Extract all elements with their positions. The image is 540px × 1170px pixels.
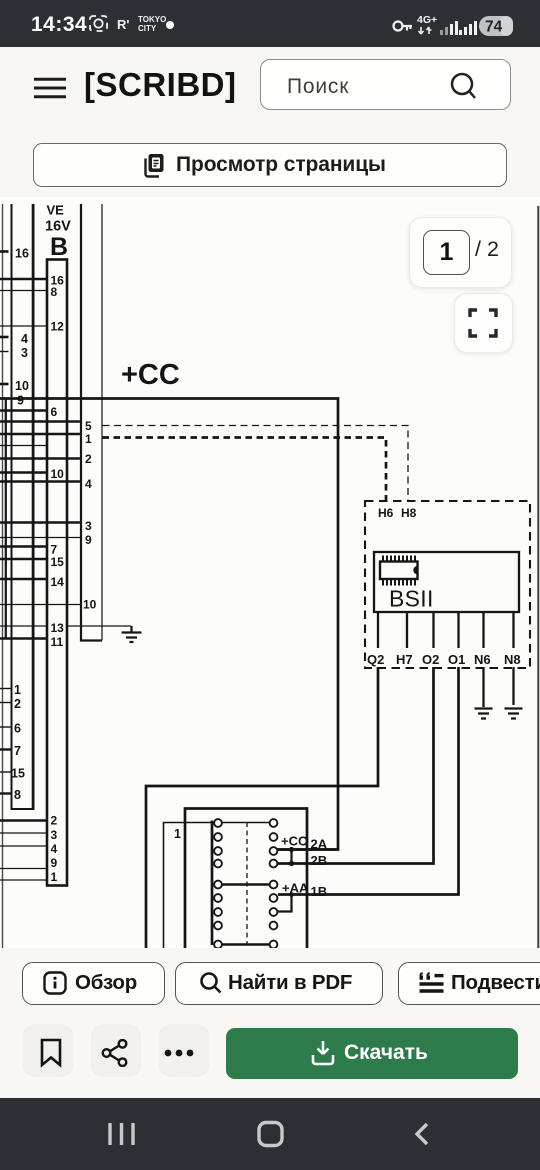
wire row 6 xyxy=(0,409,47,411)
battery xyxy=(479,16,513,36)
svg-text:15: 15 xyxy=(51,555,65,569)
wire row 2 xyxy=(0,457,81,459)
connector E outer box xyxy=(185,809,307,949)
svg-text:9: 9 xyxy=(85,533,92,547)
connector E pin bus xyxy=(211,821,214,946)
wire row b2 xyxy=(0,819,47,821)
footer xyxy=(0,948,540,1098)
svg-text:O1: O1 xyxy=(448,652,465,667)
pin wire Q2 xyxy=(377,612,379,648)
connector E mid dashed xyxy=(246,822,248,944)
wire row 10d xyxy=(0,604,81,606)
wire row 14 xyxy=(0,578,47,580)
svg-text:3: 3 xyxy=(21,346,28,360)
svg-text:1B: 1B xyxy=(311,884,328,899)
svg-text:BSII: BSII xyxy=(389,586,434,612)
wire tick c6 xyxy=(0,726,12,728)
wire page right edge xyxy=(537,206,539,948)
svg-text:+AA: +AA xyxy=(282,881,309,896)
wire N6 route xyxy=(482,667,484,707)
svg-text:1: 1 xyxy=(174,827,181,841)
wire row 1 xyxy=(0,433,81,435)
svg-text:10: 10 xyxy=(15,379,29,393)
wire tick 10 xyxy=(0,383,9,386)
wire tick 16 xyxy=(0,250,9,253)
svg-text:N8: N8 xyxy=(504,652,521,667)
wire row 16 xyxy=(0,278,47,280)
svg-text:7: 7 xyxy=(14,744,21,758)
wire tick c1 xyxy=(0,688,12,690)
junction dots xyxy=(289,847,294,852)
svg-text:H8: H8 xyxy=(401,506,417,520)
wire row b1 xyxy=(0,879,47,881)
pin wire O2 xyxy=(432,612,434,648)
svg-text:13: 13 xyxy=(51,621,65,635)
connector D box xyxy=(81,204,102,641)
svg-text:R': R' xyxy=(117,17,129,32)
svg-text:5: 5 xyxy=(85,419,92,433)
status bar xyxy=(0,0,540,47)
svg-text:B: B xyxy=(50,233,68,261)
wire row 8 xyxy=(0,290,47,292)
connector B pin numbers xyxy=(51,274,65,885)
wire row 15 xyxy=(0,558,47,560)
pin wire H7 xyxy=(406,612,408,648)
wire row 3 xyxy=(0,521,81,523)
module U1 dashed enclosure xyxy=(365,501,530,668)
svg-text:O2: O2 xyxy=(422,652,439,667)
wire tick c2 xyxy=(0,702,12,704)
wire N8 route xyxy=(512,667,514,705)
wire row 13 to ground xyxy=(67,625,131,627)
svg-text:9: 9 xyxy=(51,856,58,870)
svg-text:1: 1 xyxy=(51,870,58,884)
connector B box xyxy=(47,260,67,886)
svg-text:16: 16 xyxy=(15,247,29,261)
wire +CC rail pin9 xyxy=(0,399,338,850)
svg-text:10: 10 xyxy=(83,598,97,612)
svg-text:4G+: 4G+ xyxy=(417,14,437,26)
pin wire O1 xyxy=(457,612,459,648)
svg-text:CITY: CITY xyxy=(138,24,157,33)
module U1 inner box xyxy=(374,552,519,612)
wire Q2 route xyxy=(146,667,378,948)
connector E left pins xyxy=(214,819,222,948)
svg-text:8: 8 xyxy=(51,285,58,299)
svg-text:Q2: Q2 xyxy=(367,652,384,667)
wire row b9 xyxy=(0,868,47,870)
wire row b3 xyxy=(0,832,47,834)
svg-text:2: 2 xyxy=(14,697,21,711)
pin wire N8 xyxy=(512,612,514,648)
svg-text:6: 6 xyxy=(51,405,58,419)
connector C left box xyxy=(12,204,34,810)
svg-text:4: 4 xyxy=(51,842,58,856)
IC chip symbol xyxy=(380,556,418,586)
pin wire N6 xyxy=(482,612,484,648)
wire H6 dashed xyxy=(103,438,387,502)
ground G2 xyxy=(475,709,493,719)
svg-text:14: 14 xyxy=(51,575,65,589)
wire row aux xyxy=(0,445,47,447)
wire O2 route xyxy=(278,667,434,864)
connector E right pins xyxy=(270,819,278,948)
wire pin1 branch xyxy=(164,823,271,949)
wire jog 2A-2B xyxy=(290,850,292,864)
svg-text:1: 1 xyxy=(85,432,92,446)
svg-text:3: 3 xyxy=(85,519,92,533)
wire row 12 xyxy=(0,325,47,327)
wire tick 3 xyxy=(0,351,9,353)
connector D pin numbers xyxy=(83,419,97,612)
wire row 7 xyxy=(0,545,47,547)
ground G3 xyxy=(505,709,523,719)
svg-text:H6: H6 xyxy=(378,506,394,520)
wire row 10b xyxy=(0,471,47,473)
wire row AA link xyxy=(222,883,270,886)
document page xyxy=(0,197,540,948)
header xyxy=(0,47,540,197)
svg-text:8: 8 xyxy=(14,788,21,802)
key icon xyxy=(394,22,413,31)
wire page left edge xyxy=(2,204,4,948)
svg-text:74: 74 xyxy=(485,19,503,36)
svg-text:10: 10 xyxy=(51,467,65,481)
svg-text:TOKYO: TOKYO xyxy=(138,15,166,24)
svg-text:15: 15 xyxy=(11,767,25,781)
svg-text:+CC: +CC xyxy=(281,834,308,849)
wire bottom link xyxy=(222,943,270,946)
wire H8 dashed xyxy=(103,426,409,502)
svg-text:VE: VE xyxy=(47,203,65,218)
wire tick c15 xyxy=(0,771,12,773)
svg-text:4: 4 xyxy=(21,332,28,346)
svg-text:9: 9 xyxy=(17,394,24,408)
svg-text:H7: H7 xyxy=(396,652,413,667)
wire row 5 xyxy=(0,420,81,422)
wire row 9d xyxy=(0,537,81,539)
ground G1 xyxy=(122,626,142,642)
svg-text:2: 2 xyxy=(51,814,58,828)
wire tick c7 xyxy=(0,748,12,750)
signal bars 2 xyxy=(459,21,477,35)
wire tick c8 xyxy=(0,792,12,794)
svg-text:2: 2 xyxy=(85,452,92,466)
wire row 11 xyxy=(0,637,47,639)
module pin labels xyxy=(367,652,521,667)
svg-text:4: 4 xyxy=(85,477,92,491)
svg-text:11: 11 xyxy=(51,635,64,649)
wire O1 route xyxy=(278,667,459,895)
svg-text:+CC: +CC xyxy=(121,359,180,391)
wire row 13 left xyxy=(0,625,47,627)
svg-text:2A: 2A xyxy=(311,837,328,852)
wire 1B jog xyxy=(278,895,292,912)
svg-text:N6: N6 xyxy=(474,652,491,667)
wire tick 4 xyxy=(0,336,9,339)
svg-text:3: 3 xyxy=(51,828,58,842)
svg-text:1: 1 xyxy=(14,683,21,697)
navbar xyxy=(0,1098,540,1170)
wire left bus xyxy=(5,399,7,639)
svg-text:12: 12 xyxy=(51,320,65,334)
svg-text:6: 6 xyxy=(14,722,21,736)
wire CC to 2A xyxy=(278,848,339,851)
signal bars 1 xyxy=(440,27,448,35)
svg-text:2B: 2B xyxy=(311,853,328,868)
wire row b4 xyxy=(0,845,47,847)
wire row 4 xyxy=(0,480,81,482)
